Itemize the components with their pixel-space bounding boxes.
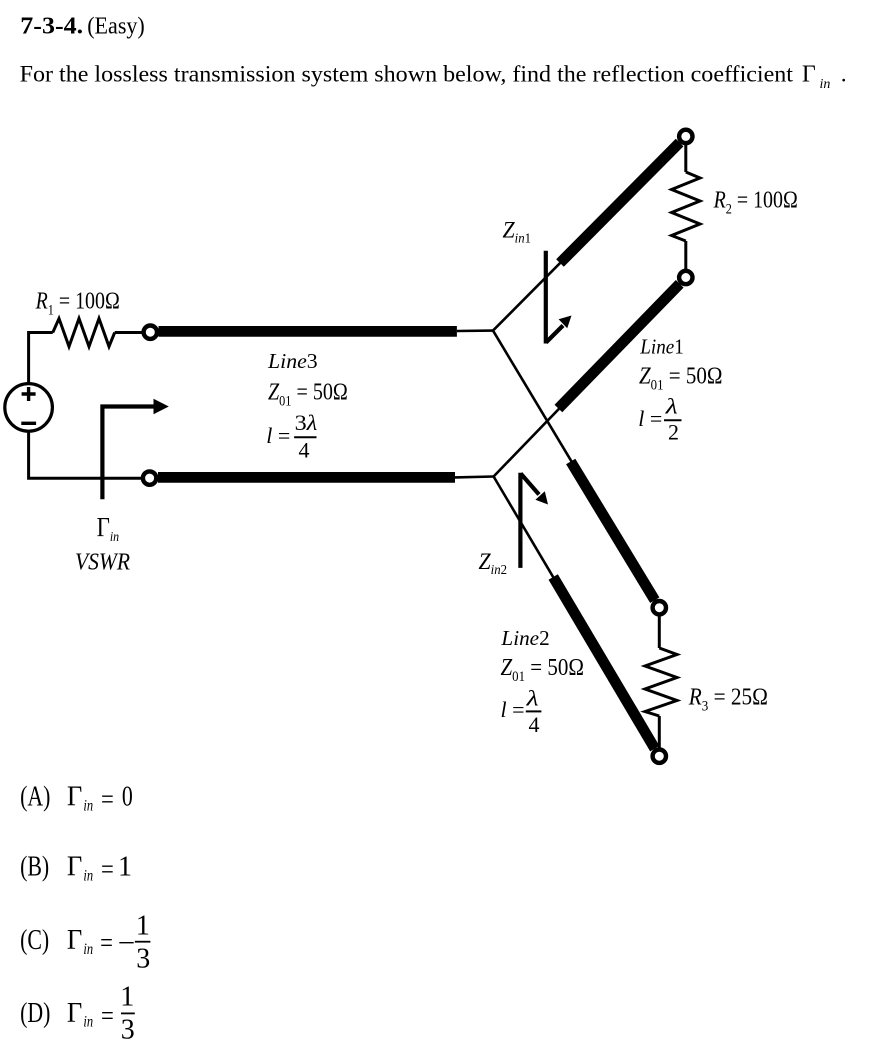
svg-text:−: − xyxy=(118,928,135,958)
svg-text:R2 = 100Ω: R2 = 100Ω xyxy=(713,185,798,216)
svg-text:in: in xyxy=(83,867,93,885)
svg-text:=: = xyxy=(100,928,113,959)
svg-text:1: 1 xyxy=(136,910,150,941)
svg-text:VSWR: VSWR xyxy=(75,547,130,575)
svg-text:in: in xyxy=(83,797,93,815)
svg-text:1: 1 xyxy=(118,852,132,883)
svg-text:=: = xyxy=(101,785,114,816)
svg-text:in: in xyxy=(820,77,831,92)
svg-text:0: 0 xyxy=(122,782,133,812)
svg-text:.: . xyxy=(841,62,847,88)
svg-text:1: 1 xyxy=(120,981,134,1012)
svg-text:Line1: Line1 xyxy=(639,336,683,359)
svg-text:Zin1: Zin1 xyxy=(503,217,532,246)
svg-text:4: 4 xyxy=(529,712,540,737)
svg-text:Γ: Γ xyxy=(67,781,82,812)
svg-text:Z01 = 50Ω: Z01 = 50Ω xyxy=(639,362,722,394)
svg-text:l =: l = xyxy=(501,697,525,722)
svg-text:l =: l = xyxy=(266,423,290,448)
svg-text:4: 4 xyxy=(299,437,310,462)
svg-text:(A): (A) xyxy=(20,782,50,812)
svg-text:2: 2 xyxy=(668,419,679,444)
svg-text:(Easy): (Easy) xyxy=(87,13,145,39)
svg-text:3λ: 3λ xyxy=(295,411,318,436)
svg-text:Γ: Γ xyxy=(802,62,816,88)
svg-text:Z01 = 50Ω: Z01 = 50Ω xyxy=(268,378,348,409)
svg-text:R1 = 100Ω: R1 = 100Ω xyxy=(35,287,120,318)
svg-text:Line3: Line3 xyxy=(267,349,318,373)
svg-text:l =: l = xyxy=(638,406,662,431)
svg-text:3: 3 xyxy=(121,1015,135,1046)
svg-text:3: 3 xyxy=(136,944,150,975)
svg-text:Γ: Γ xyxy=(67,851,82,882)
svg-text:=: = xyxy=(101,855,114,886)
svg-text:Zin2: Zin2 xyxy=(479,548,508,577)
svg-text:(B): (B) xyxy=(20,852,49,882)
svg-text:For the lossless transmission: For the lossless transmission system sho… xyxy=(20,62,794,88)
svg-text:7-3-4.: 7-3-4. xyxy=(20,13,83,39)
svg-text:Line2: Line2 xyxy=(500,626,549,650)
svg-text:in: in xyxy=(83,941,93,959)
svg-text:R3 = 25Ω: R3 = 25Ω xyxy=(688,683,768,715)
svg-text:λ: λ xyxy=(665,395,678,419)
svg-text:in: in xyxy=(83,1013,93,1031)
svg-text:(C): (C) xyxy=(20,926,49,956)
svg-text:Z01 = 50Ω: Z01 = 50Ω xyxy=(501,653,584,685)
svg-text:λ: λ xyxy=(525,687,538,711)
svg-text:(D): (D) xyxy=(20,998,50,1028)
svg-text:Γin: Γin xyxy=(97,513,120,544)
svg-text:Γ: Γ xyxy=(67,997,82,1028)
svg-text:=: = xyxy=(101,1001,114,1032)
svg-text:Γ: Γ xyxy=(67,924,82,955)
